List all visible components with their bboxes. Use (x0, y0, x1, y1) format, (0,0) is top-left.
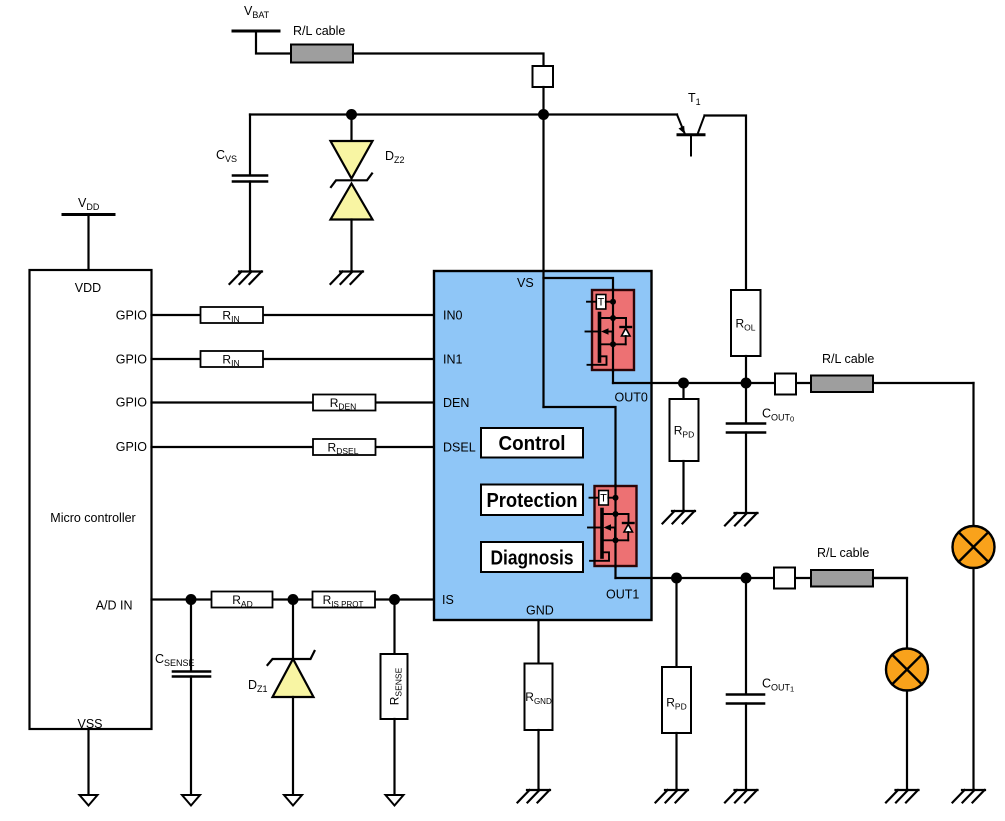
wire RGND to ground (537, 730, 539, 790)
wire A/D to RSENSE (393, 600, 395, 655)
diode DZ1 (zener) (268, 651, 315, 697)
capacitor COUT1 (727, 695, 764, 704)
node VS junction (538, 109, 549, 120)
wire DZ1 to arrow ground (292, 697, 294, 795)
node OUT1 RPD junction (671, 573, 682, 584)
svg-text:VSS: VSS (77, 717, 102, 731)
wire GPIO2 to IN1 (152, 358, 436, 360)
node OUT0 COUT junction (741, 378, 752, 389)
resistor R/L cable (supply) (291, 45, 353, 63)
micro controller U2 box (30, 270, 152, 729)
svg-text:COUT1: COUT1 (762, 677, 794, 694)
resistor R/L cable (OUT0) (811, 376, 873, 393)
lamp L0 (953, 526, 995, 568)
resistor RIN (IN1) (201, 351, 264, 367)
wire OUT1 rail (616, 577, 908, 579)
wire A/D IN to IS (152, 598, 436, 600)
wire CVS to ground (249, 182, 251, 272)
wire OUT1 to RPD1 (675, 578, 677, 667)
svg-text:Diagnosis: Diagnosis (491, 548, 574, 570)
svg-text:IN0: IN0 (443, 309, 463, 323)
resistor RDSEL (313, 439, 376, 455)
wire CSENSE to arrow ground (190, 677, 192, 796)
resistor RDEN (313, 395, 376, 411)
resistor RIS_PROT (313, 592, 376, 608)
svg-text:CSENSE: CSENSE (155, 652, 195, 668)
svg-text:VBAT: VBAT (244, 4, 270, 20)
fuse F1 (533, 66, 554, 87)
svg-text:Micro controller: Micro controller (50, 511, 135, 525)
ground DZ2 (331, 272, 364, 285)
svg-text:DEN: DEN (443, 396, 469, 410)
supply VBAT bar (233, 30, 279, 33)
wire OUT1 to COUT1 (745, 578, 747, 694)
wire OUT1 to lamp L1 (873, 578, 907, 649)
svg-text:VDD: VDD (78, 196, 100, 212)
node A/D DZ1 junction (288, 594, 299, 605)
wire DZ2 to ground (350, 220, 352, 272)
svg-text:GPIO: GPIO (116, 353, 148, 367)
capacitor CVS (233, 176, 267, 182)
resistor RIN (IN0) (201, 307, 264, 323)
wire VS bus horizontal (250, 113, 677, 115)
svg-text:CVS: CVS (216, 148, 237, 164)
wire OUT0 to RPD (682, 383, 684, 399)
svg-text:R/L cable: R/L cable (293, 24, 345, 38)
svg-text:OUT0: OUT0 (615, 391, 648, 405)
ground arrow DZ1 (284, 795, 302, 806)
svg-text:GPIO: GPIO (116, 440, 148, 454)
svg-text:T1: T1 (688, 91, 701, 107)
wire VS branch to channel 0 (544, 278, 614, 383)
svg-text:IN1: IN1 (443, 353, 463, 367)
power stage cell 1 (588, 485, 637, 567)
IC U1 (smart high-side switch) (434, 271, 652, 620)
svg-text:OUT1: OUT1 (606, 588, 639, 602)
node OUT1 COUT junction (741, 573, 752, 584)
resistor RPD (OUT1) (662, 667, 691, 733)
wire supply to fuse (353, 54, 544, 67)
capacitor CSENSE (173, 672, 210, 677)
wire GPIO3 to DEN (152, 401, 436, 403)
wire VS branch to channel 1 (544, 407, 616, 578)
svg-text:Control: Control (499, 433, 566, 455)
wire VDD stem (87, 215, 89, 271)
wire RSENSE to arrow ground (393, 719, 395, 795)
svg-text:DZ1: DZ1 (248, 678, 268, 694)
svg-text:VS: VS (517, 276, 534, 290)
power stage cell 0 (586, 289, 635, 371)
wire VSS to arrow ground (87, 729, 89, 795)
node OUT0 RPD junction (678, 378, 689, 389)
capacitor COUT0 (727, 424, 765, 433)
svg-text:GPIO: GPIO (116, 396, 148, 410)
ground RGND (518, 790, 551, 803)
supply VDD bar (63, 213, 114, 216)
wire fuse to VS bus (542, 87, 544, 115)
svg-text:GND: GND (526, 604, 554, 618)
wire OUT0 rail (613, 382, 974, 384)
connector OUT1 (774, 568, 795, 589)
svg-text:GPIO: GPIO (116, 309, 148, 323)
ground COUT0 (725, 513, 758, 526)
wire RPD0 to ground (682, 461, 684, 511)
wire RPD1 to ground (675, 733, 677, 790)
resistor RAD (212, 592, 273, 608)
wire GND pin to RGND (537, 620, 539, 664)
wire OUT0 to lamp (972, 383, 974, 526)
resistor ROL (731, 290, 761, 356)
svg-text:COUT0: COUT0 (762, 407, 794, 424)
ground arrow RSENSE (386, 795, 404, 806)
resistor RPD (OUT0) (670, 399, 699, 461)
lamp L1 (886, 649, 928, 691)
resistor RSENSE (381, 654, 408, 719)
block Control (481, 428, 583, 458)
wire OUT0 to COUT0 (745, 383, 747, 423)
wire GPIO4 to DSEL (152, 446, 436, 448)
wire bus to DZ2 (350, 115, 352, 142)
wire GPIO1 to IN0 (152, 314, 436, 316)
resistor RGND (525, 664, 553, 731)
node A/D RSENSE junction (389, 594, 400, 605)
node A/D CSENSE junction (186, 594, 197, 605)
ground COUT1 (725, 790, 758, 803)
wire COUT0 to ground (745, 433, 747, 514)
wire COUT1 to ground (745, 704, 747, 791)
ground arrow VSS (80, 795, 98, 806)
ground arrow CSENSE (182, 795, 200, 806)
diode DZ2 (bidirectional TVS) (331, 141, 373, 220)
svg-text:A/D IN: A/D IN (96, 599, 133, 613)
wire bus to CVS (249, 115, 251, 176)
ground RPD1 (656, 790, 689, 803)
wire A/D to DZ1 (292, 600, 294, 659)
ground RPD0 (663, 511, 696, 524)
block Protection (481, 485, 583, 516)
svg-text:IS: IS (442, 593, 454, 607)
ground lamp L1 (886, 790, 919, 803)
svg-text:R/L cable: R/L cable (822, 352, 874, 366)
svg-text:R/L cable: R/L cable (817, 546, 869, 560)
block Diagnosis (481, 542, 583, 572)
svg-text:VDD: VDD (75, 281, 101, 295)
ground lamp L0 (953, 790, 986, 803)
connector OUT0 (775, 374, 796, 395)
svg-text:Protection: Protection (487, 490, 578, 512)
node DZ2 junction (346, 109, 357, 120)
svg-text:DSEL: DSEL (443, 440, 476, 454)
wire VBAT stem (256, 31, 291, 54)
resistor R/L cable (OUT1) (811, 570, 873, 587)
wire lamp L1 to ground (906, 691, 908, 791)
wire A/D to CSENSE (190, 600, 192, 672)
transistor T1 (677, 115, 705, 156)
wire ROL to OUT0 (745, 356, 747, 383)
wire VS pin vertical (542, 115, 544, 408)
ground CVS (230, 272, 263, 285)
svg-text:DZ2: DZ2 (385, 149, 405, 165)
wire lamp L0 to ground (972, 568, 974, 790)
wire T1 collector to ROL (705, 116, 747, 291)
